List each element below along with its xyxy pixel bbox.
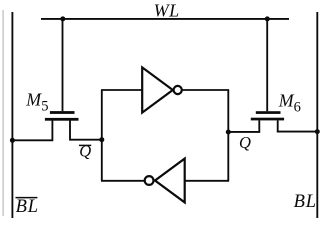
svg-text:M: M <box>25 89 42 109</box>
svg-text:5: 5 <box>41 99 48 115</box>
svg-text:BL: BL <box>16 197 39 217</box>
svg-text:Q: Q <box>239 133 251 152</box>
svg-text:WL: WL <box>154 1 180 21</box>
svg-text:M: M <box>278 91 295 111</box>
svg-text:6: 6 <box>294 100 301 116</box>
svg-text:BL: BL <box>294 192 317 212</box>
svg-text:Q: Q <box>79 141 91 160</box>
